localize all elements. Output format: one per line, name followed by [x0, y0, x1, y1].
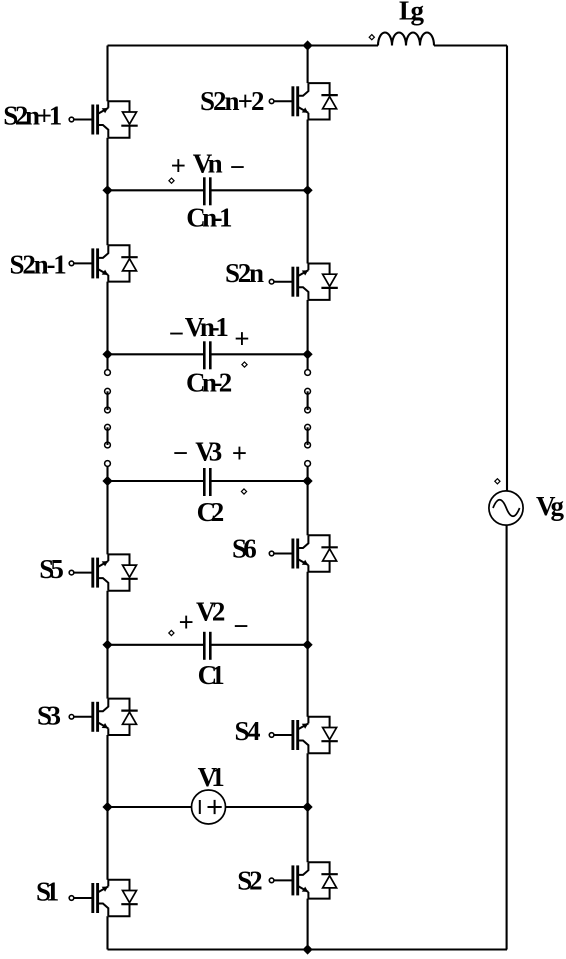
svg-text:S2n+2: S2n+2 [200, 86, 265, 116]
wire right rail upper [506, 46, 508, 492]
wire right-mid rail seg6 [307, 753, 309, 862]
continuation stub right lower [307, 467, 309, 482]
svg-text:S3: S3 [37, 701, 61, 731]
svg-text:−: − [173, 438, 188, 468]
transistor S6 [269, 535, 338, 571]
svg-text:C1: C1 [198, 660, 225, 690]
svg-text:V2: V2 [196, 597, 225, 627]
wire top from inductor to right corner [434, 44, 507, 46]
wire row Cn-1 [108, 189, 308, 191]
svg-text:−: − [230, 152, 245, 182]
source V1 [192, 790, 226, 824]
transistor S2 [269, 862, 338, 898]
svg-text:+: + [234, 324, 249, 354]
wire left rail seg6 [106, 735, 108, 880]
svg-text:+: + [232, 438, 247, 468]
continuation stub left lower [106, 467, 108, 482]
continuation stub right upper [307, 354, 309, 369]
svg-text:+: + [179, 607, 194, 637]
junction node top [304, 42, 311, 49]
svg-text:−: − [233, 611, 248, 641]
wire right-mid rail seg4 [307, 481, 309, 535]
transistor S3 [69, 699, 138, 735]
wire left rail seg5 [106, 591, 108, 699]
continuation dots right [305, 370, 311, 467]
svg-text:Vg: Vg [536, 491, 565, 521]
svg-text:Lg: Lg [399, 0, 425, 26]
svg-text:S6: S6 [232, 534, 257, 564]
svg-text:S2: S2 [237, 866, 262, 896]
junction node Cn-1 left [104, 187, 111, 194]
continuation stub left upper [106, 354, 108, 369]
svg-text:S5: S5 [39, 554, 64, 584]
transistor S5 [69, 554, 138, 590]
wire left rail seg7 [106, 916, 108, 949]
svg-text:+: + [171, 150, 186, 180]
probe marker V2 [169, 630, 174, 635]
svg-text:V3: V3 [195, 437, 222, 467]
wire left rail seg1 [106, 46, 108, 102]
transistor S2n+1 [69, 101, 138, 137]
transistor S1 [69, 880, 138, 916]
wire right-mid rail seg7 [307, 899, 309, 950]
wire left rail seg2 [106, 138, 108, 246]
wire right-mid rail seg2 [307, 120, 309, 264]
capacitor C2 [204, 468, 210, 496]
svg-text:S1: S1 [36, 877, 59, 907]
junction node C2 left [104, 477, 111, 484]
junction node Cn-1 right [304, 187, 311, 194]
svg-text:Cn-2: Cn-2 [186, 368, 232, 398]
transistor S2n-1 [69, 245, 138, 281]
svg-text:S4: S4 [235, 716, 261, 746]
capacitor C1 [204, 632, 210, 660]
transistor S4 [269, 717, 338, 753]
wire bottom [108, 948, 508, 950]
probe marker Vn [169, 178, 174, 183]
inductor Lg [378, 33, 434, 46]
svg-text:Vn-1: Vn-1 [185, 312, 229, 342]
capacitor Cn-1 [204, 177, 210, 205]
wire right-mid rail seg5 [307, 572, 309, 717]
wire right-mid rail seg1 [307, 46, 309, 84]
junction node Cn-2 right [304, 351, 311, 358]
junction node C1 left [104, 641, 111, 648]
wire left rail seg3 [106, 282, 108, 355]
wire row V1 right [226, 806, 308, 808]
wire right rail lower [506, 525, 508, 949]
svg-text:Vn: Vn [193, 149, 223, 179]
source Vg [489, 491, 523, 525]
wire row V1 left [108, 806, 192, 808]
svg-text:−: − [169, 319, 184, 349]
continuation dots left [105, 370, 111, 467]
probe marker Lg [369, 35, 374, 40]
junction node V1 left [104, 803, 111, 810]
junction node C2 right [304, 477, 311, 484]
wire top from left rail to inductor [108, 44, 379, 46]
junction node bottom [304, 946, 311, 953]
probe marker V3 [241, 489, 246, 494]
wire left rail seg4 [106, 481, 108, 554]
wire row Cn-2 [108, 353, 308, 355]
svg-text:S2n-1: S2n-1 [10, 250, 67, 280]
capacitor Cn-2 [204, 341, 210, 369]
junction node C1 right [304, 641, 311, 648]
transistor S2n+2 [269, 83, 338, 119]
svg-text:S2n: S2n [225, 258, 264, 288]
transistor S2n [269, 264, 338, 300]
wire right-mid rail seg3 [307, 300, 309, 354]
svg-text:Cn-1: Cn-1 [186, 203, 232, 233]
svg-text:C2: C2 [197, 497, 225, 527]
wire row C1 [108, 644, 308, 646]
junction node V1 right [304, 803, 311, 810]
junction node Cn-2 left [104, 351, 111, 358]
probe marker Vn-1 [242, 362, 247, 367]
probe marker Vg [495, 479, 500, 484]
svg-text:V1: V1 [198, 762, 225, 792]
wire row C2 [108, 480, 308, 482]
svg-text:S2n+1: S2n+1 [3, 101, 62, 131]
